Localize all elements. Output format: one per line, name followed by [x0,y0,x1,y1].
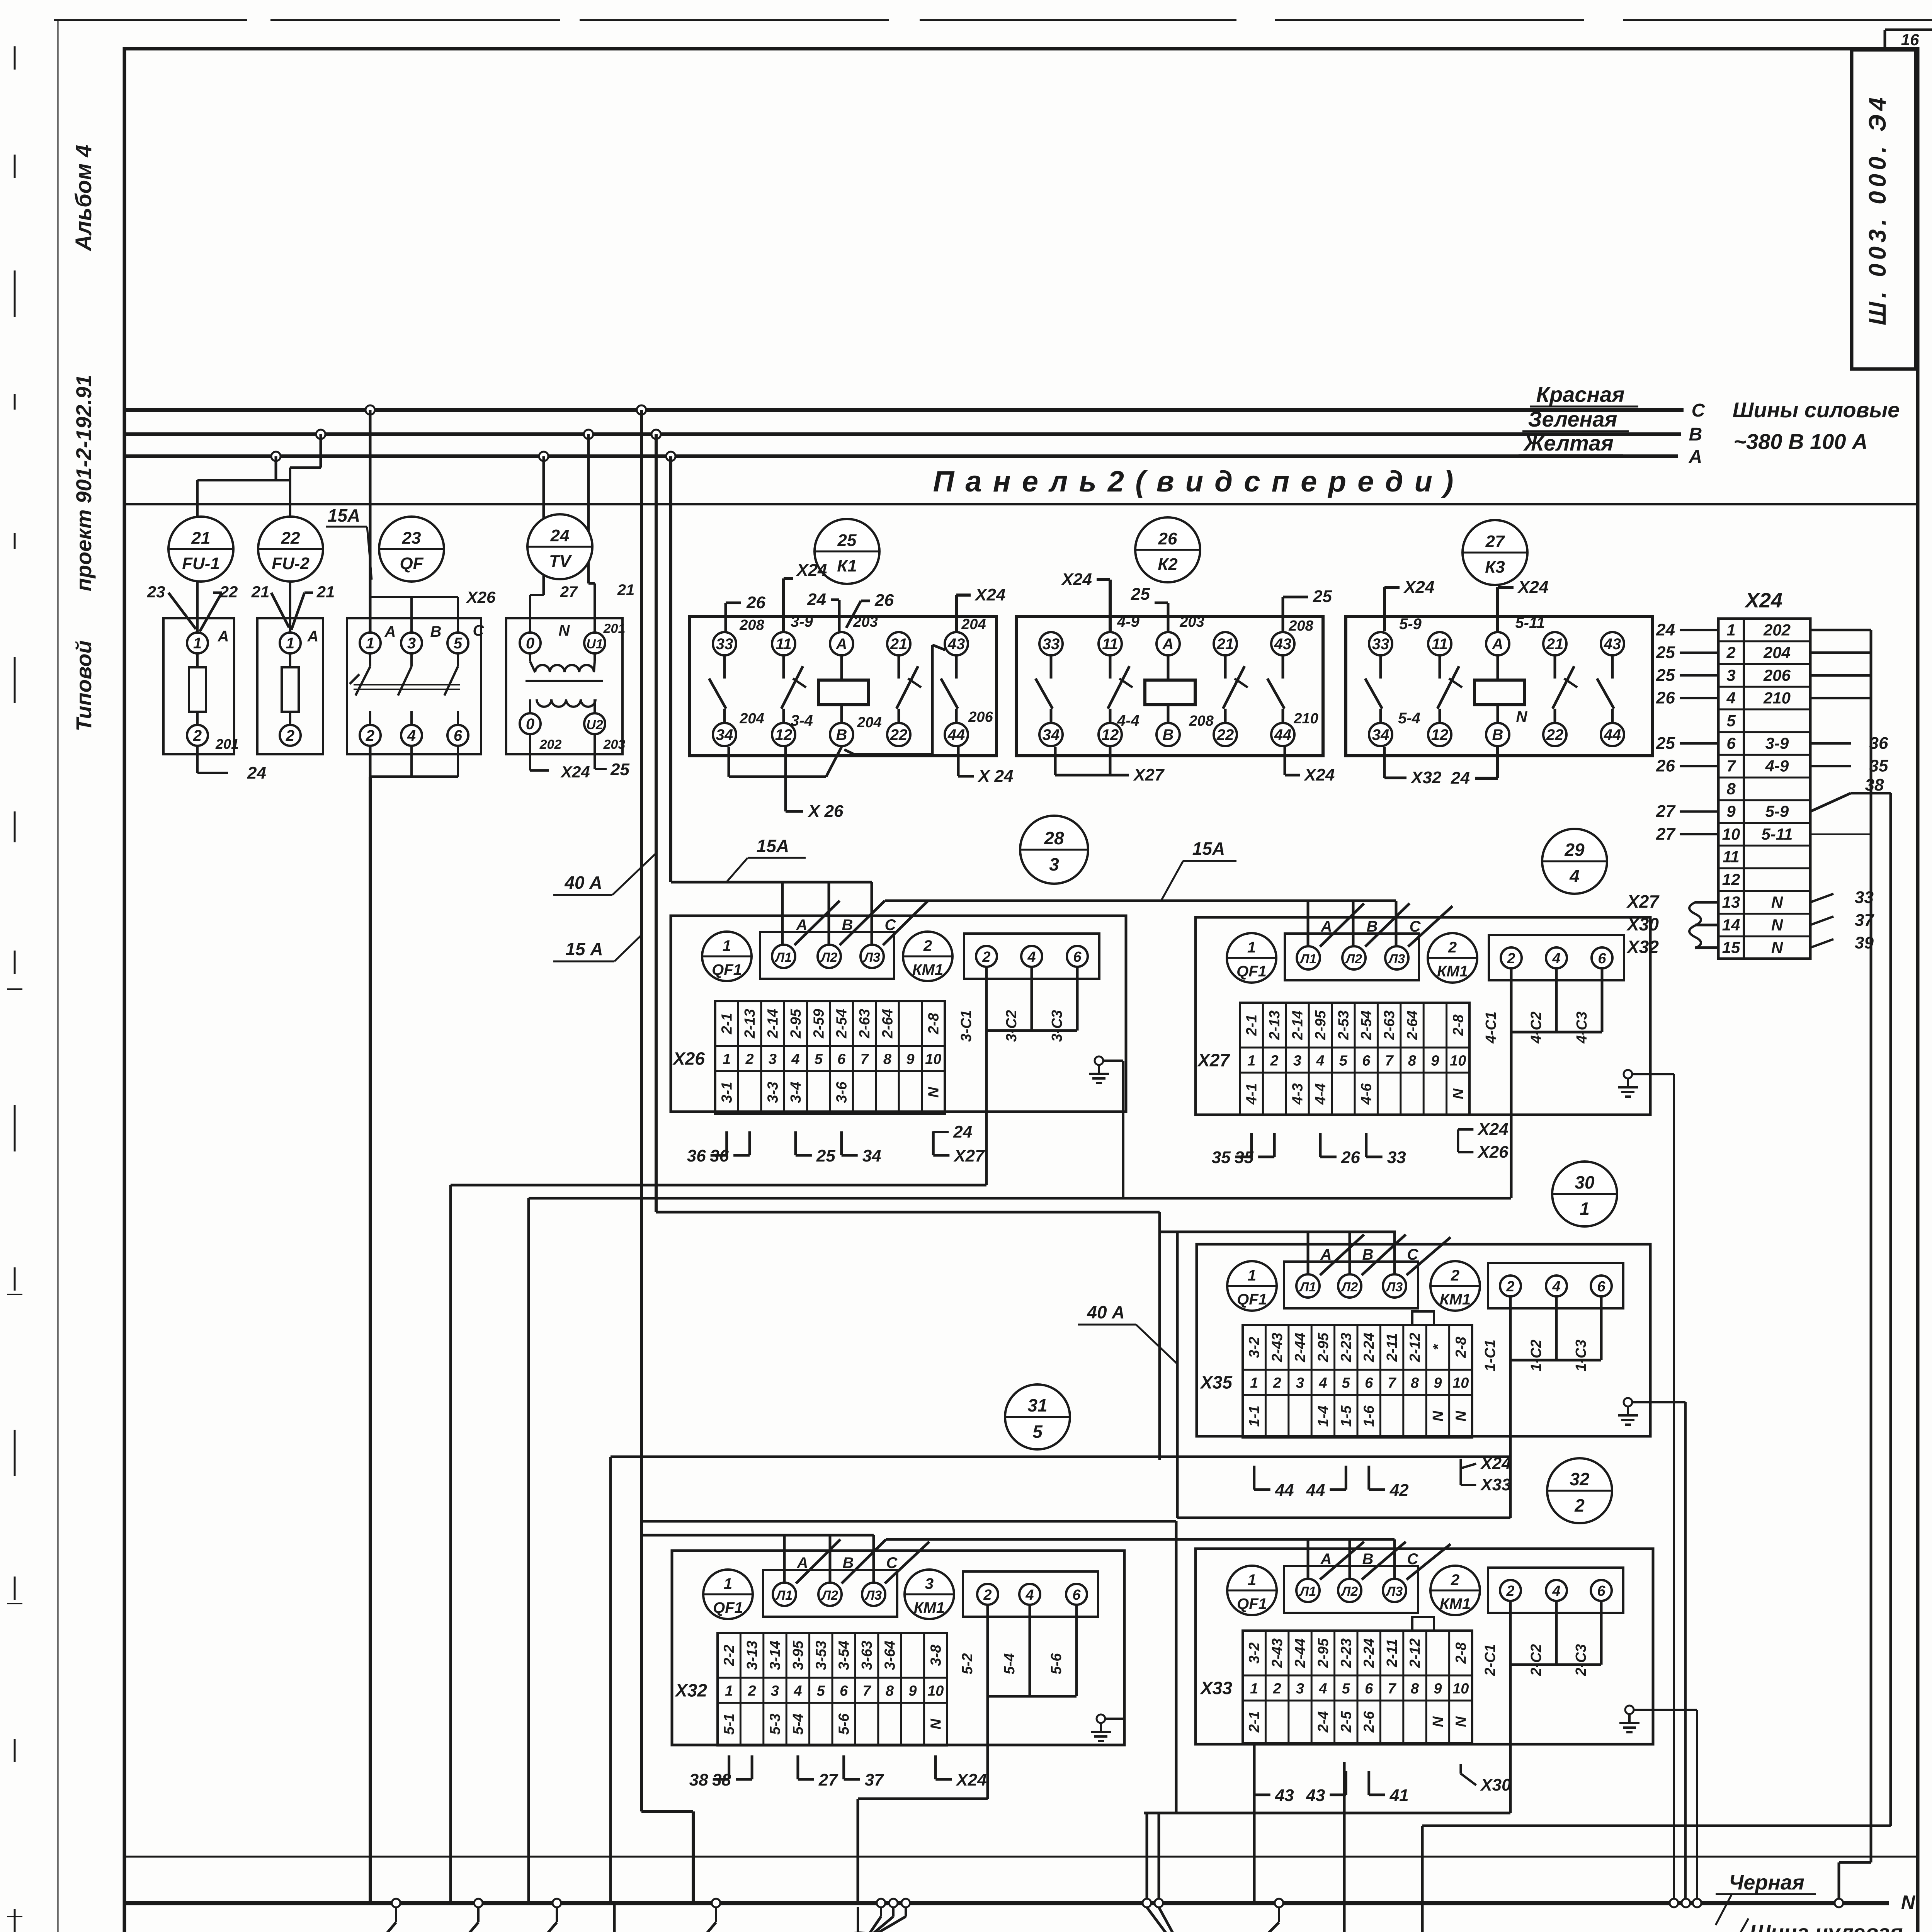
svg-text:5: 5 [1342,1681,1350,1697]
svg-text:44: 44 [947,726,965,743]
coil [1145,680,1195,705]
svg-text:3-4: 3-4 [788,1082,804,1103]
svg-text:3-6: 3-6 [834,1082,850,1103]
svg-text:4: 4 [1025,1587,1034,1603]
svg-text:П а н е л ь 2 ( в и д с п: П а н е л ь 2 ( в и д с п е р е д и ) [933,465,1455,498]
svg-text:204: 204 [961,616,986,633]
svg-text:Шина нулевая: Шина нулевая [1750,1920,1903,1932]
svg-text:N: N [1450,1088,1466,1099]
svg-text:5-9: 5-9 [1765,802,1789,820]
svg-text:1-С2: 1-С2 [1528,1340,1544,1371]
svg-text:44: 44 [1306,1481,1325,1500]
unit 29 C wires [1556,968,1557,1032]
svg-text:6: 6 [1362,1053,1371,1069]
svg-text:Л1: Л1 [1299,1584,1316,1599]
svg-text:В: В [842,917,853,934]
svg-text:2-44: 2-44 [1293,1638,1309,1668]
svg-text:1: 1 [286,635,294,652]
svg-text:C: C [1692,400,1706,421]
svg-text:3-63: 3-63 [859,1641,875,1670]
X35 stubs [1253,1466,1255,1490]
svg-text:9: 9 [908,1683,917,1699]
transformer TV [506,618,625,754]
svg-text:7: 7 [1388,1375,1397,1391]
svg-text:2-8: 2-8 [925,1013,942,1035]
svg-text:7: 7 [1385,1053,1394,1069]
svg-text:2-95: 2-95 [1313,1010,1329,1040]
svg-text:4: 4 [1726,689,1735,707]
callout 30/1 [1552,1162,1617,1226]
svg-text:Альбом 4: Альбом 4 [71,145,96,252]
unit 31 C wires [1029,1605,1030,1696]
svg-text:Желтая: Желтая [1523,431,1614,455]
terminal strip X33 [1243,1631,1472,1743]
svg-text:Л3: Л3 [1385,1280,1403,1294]
svg-text:2-59: 2-59 [811,1009,827,1039]
unit 29 contact output [1510,968,1513,1198]
svg-text:В: В [843,1554,854,1571]
svg-text:42: 42 [1389,1481,1409,1500]
svg-text:26: 26 [1158,529,1177,548]
junction [637,405,646,415]
svg-text:43: 43 [1604,636,1621,653]
svg-text:15А: 15А [328,505,360,526]
svg-text:5: 5 [454,635,463,652]
junction [1682,1899,1690,1907]
callout 31/5 [1005,1384,1070,1449]
svg-text:21: 21 [191,529,211,548]
junction [539,452,548,461]
page number box 16 [1885,29,1932,31]
svg-text:4-4: 4-4 [1117,712,1139,729]
X24 right rail rows1-4 [1810,629,1871,631]
svg-text:8: 8 [1411,1375,1419,1391]
svg-text:Типовой: Типовой [71,640,96,731]
bus C (Красная) [124,408,1684,412]
svg-text:Л1: Л1 [775,1588,793,1603]
svg-text:25: 25 [816,1146,835,1165]
contactor K3 [1346,617,1653,756]
svg-text:4: 4 [1552,1279,1560,1295]
svg-text:10: 10 [1452,1375,1469,1391]
svg-text:1: 1 [1248,1267,1256,1284]
ground rail 2 [1684,1402,1687,1903]
svg-text:3-2: 3-2 [1247,1643,1263,1664]
svg-text:12: 12 [1102,726,1119,743]
notch X33 [1412,1617,1434,1631]
svg-text:X24: X24 [1403,578,1434,597]
svg-text:N: N [1430,1716,1446,1727]
svg-text:34: 34 [862,1146,881,1165]
svg-text:X27: X27 [1626,891,1660,912]
coil [818,680,869,705]
svg-text:12: 12 [775,726,793,743]
svg-text:43: 43 [947,636,965,653]
svg-text:2-24: 2-24 [1361,1333,1378,1362]
svg-text:2: 2 [1506,1279,1514,1295]
svg-text:36: 36 [687,1146,706,1165]
unit 31 to 5-K1 riser [858,1798,988,1800]
svg-text:КМ1: КМ1 [912,961,943,978]
svg-text:1-5: 1-5 [1338,1405,1354,1427]
circuit breaker QF [347,618,485,754]
scan artifacts left edge [14,46,16,70]
svg-text:33: 33 [1043,636,1060,653]
svg-text:2: 2 [366,727,374,744]
svg-text:2-12: 2-12 [1407,1333,1423,1362]
svg-text:6: 6 [837,1051,846,1068]
svg-text:4-6: 4-6 [1359,1083,1375,1105]
junction [1835,1899,1843,1907]
svg-text:Л1: Л1 [774,950,792,965]
svg-text:1-С3: 1-С3 [1573,1340,1589,1371]
svg-text:6: 6 [1726,734,1736,752]
svg-text:25: 25 [1656,666,1675,685]
svg-text:204: 204 [1763,643,1791,662]
svg-text:3: 3 [1726,666,1735,684]
svg-text:35: 35 [1212,1148,1231,1167]
svg-text:2: 2 [193,727,202,744]
svg-text:43: 43 [1306,1786,1325,1805]
ground unit 28 [1089,1056,1109,1083]
svg-text:QF1: QF1 [1237,1291,1267,1308]
svg-text:3-3: 3-3 [765,1082,781,1103]
svg-text:210: 210 [1763,689,1791,707]
junction [366,405,375,415]
svg-text:2-6: 2-6 [1361,1711,1378,1733]
svg-text:2-13: 2-13 [742,1009,758,1039]
coil [1475,680,1525,705]
svg-text:8: 8 [1408,1053,1417,1069]
callout 25 K1 [815,519,879,584]
svg-text:X24: X24 [1303,765,1335,784]
svg-text:X24: X24 [796,561,827,580]
svg-text:44: 44 [1274,726,1292,743]
svg-text:2-13: 2-13 [1267,1010,1283,1040]
feed bus to unit 29 [885,900,1396,902]
unit 29 return to 4-H1 [529,1197,1511,1200]
callout 32/2 [1547,1458,1612,1523]
svg-text:Зеленая: Зеленая [1528,407,1617,431]
contact box [1489,935,1624,980]
svg-text:X32: X32 [1626,937,1659,957]
svg-text:11: 11 [1102,636,1118,653]
svg-text:15А: 15А [1192,838,1225,859]
svg-text:2-1: 2-1 [1244,1015,1260,1036]
junction [553,1899,561,1907]
callout 23 QF [379,517,444,582]
phase diagonals unit 29 [1320,903,1364,947]
svg-text:26: 26 [1656,757,1675,776]
svg-text:22: 22 [1546,726,1564,743]
svg-text:Красная: Красная [1536,382,1625,406]
svg-text:1: 1 [1580,1199,1590,1219]
svg-text:2: 2 [1574,1495,1585,1515]
contact box [964,934,1099,979]
riser jog to 1-H1 [641,1810,693,1813]
svg-text:2: 2 [1726,643,1735,662]
svg-text:2-44: 2-44 [1293,1333,1309,1362]
unit 30 wire loop [1158,1232,1161,1460]
svg-text:8: 8 [883,1051,892,1068]
svg-text:4: 4 [793,1683,802,1699]
svg-text:Ш. 003. 000. Э4: Ш. 003. 000. Э4 [1864,94,1891,325]
TV bottom stubs [529,734,531,770]
terminal strip X32 [718,1633,947,1745]
ground unit 31 [1091,1714,1111,1741]
terminal strip X35 [1243,1325,1472,1437]
svg-text:36: 36 [1869,734,1888,753]
svg-text:208: 208 [1288,618,1313,634]
svg-text:2-8: 2-8 [1450,1014,1466,1036]
svg-text:FU-2: FU-2 [272,554,310,573]
svg-text:В: В [1367,918,1378,935]
svg-text:3-2: 3-2 [1247,1337,1263,1358]
svg-text:21: 21 [617,582,635,599]
svg-text:28: 28 [1044,828,1064,848]
svg-text:3-9: 3-9 [791,613,813,630]
svg-text:24: 24 [1451,769,1470,787]
svg-text:33: 33 [1372,636,1389,653]
svg-text:208: 208 [739,617,764,633]
junction [1143,1899,1151,1907]
svg-text:В: В [836,726,847,743]
X24 right stubs 36/35 [1810,742,1851,745]
svg-text:204: 204 [857,714,881,731]
К3 feed from X24 rail [1422,1825,1891,1827]
svg-text:X26: X26 [466,588,496,606]
svg-text:16: 16 [1901,31,1919,49]
svg-text:2-24: 2-24 [1361,1638,1378,1668]
svg-text:А: А [836,636,847,653]
svg-text:3: 3 [769,1051,777,1068]
svg-text:11: 11 [1723,848,1740,866]
svg-text:3: 3 [1049,854,1059,874]
svg-text:202: 202 [539,737,562,752]
fuse body [282,667,299,712]
svg-text:3: 3 [1293,1053,1301,1069]
svg-text:37: 37 [865,1770,884,1789]
junction [877,1899,885,1907]
svg-text:6: 6 [1072,1587,1081,1603]
K2 top stubs [1109,580,1112,631]
svg-text:5-6: 5-6 [836,1713,852,1735]
svg-text:4-С2: 4-С2 [1528,1012,1544,1044]
svg-text:24: 24 [247,764,266,782]
neutral bus N (Черная) [124,1901,1889,1905]
svg-text:2-8: 2-8 [1453,1337,1469,1359]
svg-text:4-С1: 4-С1 [1483,1012,1499,1044]
svg-text:30: 30 [1575,1172,1595,1192]
svg-text:9: 9 [1434,1375,1442,1391]
ground unit 29 [1618,1070,1638,1097]
svg-text:N: N [1901,1891,1915,1913]
svg-text:1: 1 [1248,1571,1256,1588]
callout 22 FU-2 [258,517,323,582]
svg-text:21: 21 [1216,636,1234,653]
svg-text:38: 38 [712,1770,731,1789]
svg-text:4-9: 4-9 [1117,613,1140,630]
ground unit 30 [1618,1398,1638,1425]
svg-text:А: А [1492,636,1503,653]
svg-text:5-4: 5-4 [1002,1653,1018,1675]
starter unit 28 (X26) [671,916,1126,1114]
svg-text:15: 15 [1722,939,1740,957]
svg-text:44: 44 [1604,726,1621,743]
svg-text:А: А [1320,1551,1332,1568]
svg-text:N: N [1771,939,1784,957]
primary winding [535,665,594,672]
svg-text:6: 6 [1597,1279,1605,1295]
svg-text:5-3: 5-3 [767,1714,784,1735]
svg-text:24: 24 [807,590,826,609]
svg-text:3-14: 3-14 [767,1641,784,1670]
svg-text:4-С3: 4-С3 [1574,1012,1590,1044]
svg-text:3: 3 [1296,1375,1304,1391]
junction [1670,1899,1678,1907]
svg-text:2-11: 2-11 [1384,1639,1400,1667]
svg-text:Л2: Л2 [1345,952,1362,966]
X33 stubs [1253,1771,1255,1795]
svg-text:37: 37 [1855,911,1874,930]
svg-text:3-64: 3-64 [882,1641,898,1670]
svg-text:2: 2 [1273,1681,1281,1697]
feed to unit 28 [671,881,872,884]
svg-text:1-6: 1-6 [1361,1405,1378,1427]
svg-text:27: 27 [560,583,578,600]
svg-text:1: 1 [1247,1053,1255,1069]
svg-text:Черная: Черная [1729,1871,1804,1894]
callout 28/3 [1020,816,1088,884]
K1 bottom wires [728,747,730,777]
svg-text:25: 25 [1656,734,1675,753]
svg-text:27: 27 [1485,532,1505,551]
svg-text:5: 5 [815,1051,823,1068]
svg-text:U1: U1 [586,637,603,651]
svg-text:3-С3: 3-С3 [1049,1010,1065,1042]
sheet edge top [54,19,247,21]
svg-text:Шины силовые: Шины силовые [1733,398,1900,422]
svg-text:12: 12 [1431,726,1449,743]
svg-text:К2: К2 [1158,555,1178,574]
svg-text:С: С [1407,1246,1419,1263]
K3 top stubs [1383,587,1386,631]
svg-text:25: 25 [837,531,857,550]
X24 left stubs [1680,629,1718,631]
unit 31 contact output [986,1605,989,1662]
svg-text:33: 33 [716,636,733,653]
svg-text:5-4: 5-4 [790,1714,806,1735]
svg-text:10: 10 [927,1683,944,1699]
junction [889,1899,898,1907]
svg-text:А: А [1321,918,1332,935]
svg-text:Л2: Л2 [1340,1280,1358,1294]
svg-text:7: 7 [1726,757,1736,775]
svg-text:2: 2 [982,949,990,965]
svg-text:2: 2 [923,937,932,954]
svg-text:2-95: 2-95 [1315,1638,1332,1668]
svg-text:2-63: 2-63 [857,1009,873,1039]
contact box [1488,1263,1623,1308]
svg-text:2-14: 2-14 [1290,1010,1306,1040]
svg-text:2-54: 2-54 [834,1009,850,1039]
rail 38 [1889,793,1892,1826]
svg-text:U2: U2 [586,718,603,732]
svg-text:14: 14 [1722,916,1740,934]
svg-text:N: N [928,1718,944,1730]
svg-text:22: 22 [890,726,908,743]
svg-text:2-64: 2-64 [880,1009,896,1039]
svg-text:3-4: 3-4 [791,712,813,729]
svg-text:QF: QF [400,554,423,573]
svg-text:5: 5 [1726,711,1736,730]
svg-text:44: 44 [1275,1481,1294,1500]
svg-text:25: 25 [1313,587,1332,606]
svg-text:С: С [1407,1551,1419,1568]
callout 29/4 [1542,829,1607,894]
svg-text:3-13: 3-13 [744,1641,760,1670]
svg-text:1: 1 [725,1683,733,1699]
notch X35 [1412,1311,1434,1325]
K2 bottom wires [1054,747,1057,775]
svg-text:21: 21 [1546,636,1564,653]
X24 rows 13-15 arrows [1810,894,1833,902]
svg-text:A: A [1689,447,1702,467]
svg-text:6: 6 [454,727,463,744]
svg-text:208: 208 [1189,713,1214,729]
svg-text:2: 2 [286,727,294,744]
lamp box [1284,1566,1418,1613]
svg-text:5-9: 5-9 [1399,616,1422,633]
svg-text:26: 26 [1656,689,1675,707]
svg-text:С: С [885,917,896,934]
svg-text:2-64: 2-64 [1405,1010,1421,1040]
lamp box [1285,934,1419,980]
svg-text:2: 2 [1451,1267,1459,1284]
svg-text:2-С2: 2-С2 [1528,1644,1544,1676]
terminal strip X26 [715,1001,945,1114]
svg-text:2-С1: 2-С1 [1482,1644,1498,1676]
panel top line [124,503,1918,505]
svg-text:2-12: 2-12 [1407,1638,1423,1668]
junction [666,452,675,461]
svg-text:2-63: 2-63 [1381,1010,1398,1040]
svg-text:5-11: 5-11 [1762,825,1793,843]
svg-text:2-95: 2-95 [1315,1332,1332,1362]
svg-text:1: 1 [1250,1375,1258,1391]
svg-text:203: 203 [853,614,878,630]
svg-text:КМ1: КМ1 [1437,963,1468,980]
svg-text:2-23: 2-23 [1338,1333,1354,1362]
svg-text:201: 201 [215,736,239,752]
svg-text:24: 24 [1656,620,1675,639]
terminal block X24 [1718,589,1810,959]
riser K4 [1343,1762,1346,1932]
svg-text:22: 22 [219,583,238,601]
svg-text:26: 26 [1341,1148,1360,1167]
starter unit 29 (X27) [1196,917,1650,1115]
svg-text:40 А: 40 А [564,872,602,893]
contact box [1488,1568,1623,1613]
junction [1275,1899,1283,1907]
lower separator line [124,1856,1918,1858]
svg-text:N: N [1453,1716,1469,1727]
svg-text:9: 9 [1431,1053,1439,1069]
svg-text:1: 1 [1726,621,1735,639]
svg-text:43: 43 [1274,636,1292,653]
junction [712,1899,720,1907]
fuse FU-2 [257,618,323,754]
